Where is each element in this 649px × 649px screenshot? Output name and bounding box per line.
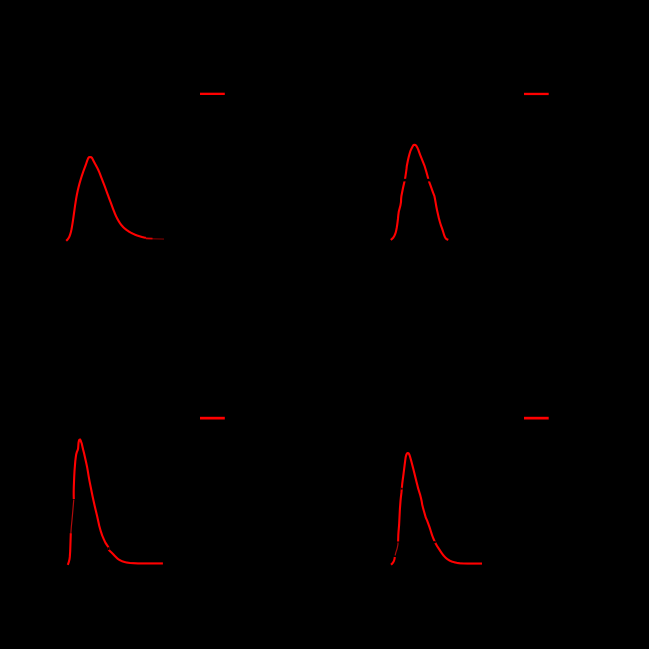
- bottom-left legend line: [200, 417, 225, 420]
- bottom-left density curve: tail after gap: [109, 547, 163, 563]
- bottom-right small dim notch on left branch: [401, 488, 403, 490]
- bottom-left density curve: main body: [74, 440, 109, 548]
- bottom-right legend line: [524, 417, 549, 420]
- top-right hidden black overlay creating gaps at y=180: [403, 179, 431, 182]
- bottom-right small hidden overlay gap on right branch: [434, 541, 436, 543]
- top-right density curve: [391, 145, 449, 240]
- bottom-right density curve: lower steep bright segment: [391, 557, 395, 565]
- bottom-right density curve: dim thin steep segment: [395, 543, 398, 556]
- bottom-left hidden black overlay gap on right branch: [108, 547, 110, 550]
- top-right legend line: [524, 93, 549, 95]
- bottom-left density curve: lower steep bright segment: [68, 533, 71, 565]
- top-left curve medium tail: [146, 237, 153, 239]
- bottom-right density curve: main body: [398, 453, 482, 564]
- bottom-left density curve: dim thin steep segment: [71, 500, 74, 534]
- top-left density curve: [66, 157, 146, 241]
- top-left legend line: [200, 93, 225, 95]
- top-left curve faint tail: [153, 238, 165, 240]
